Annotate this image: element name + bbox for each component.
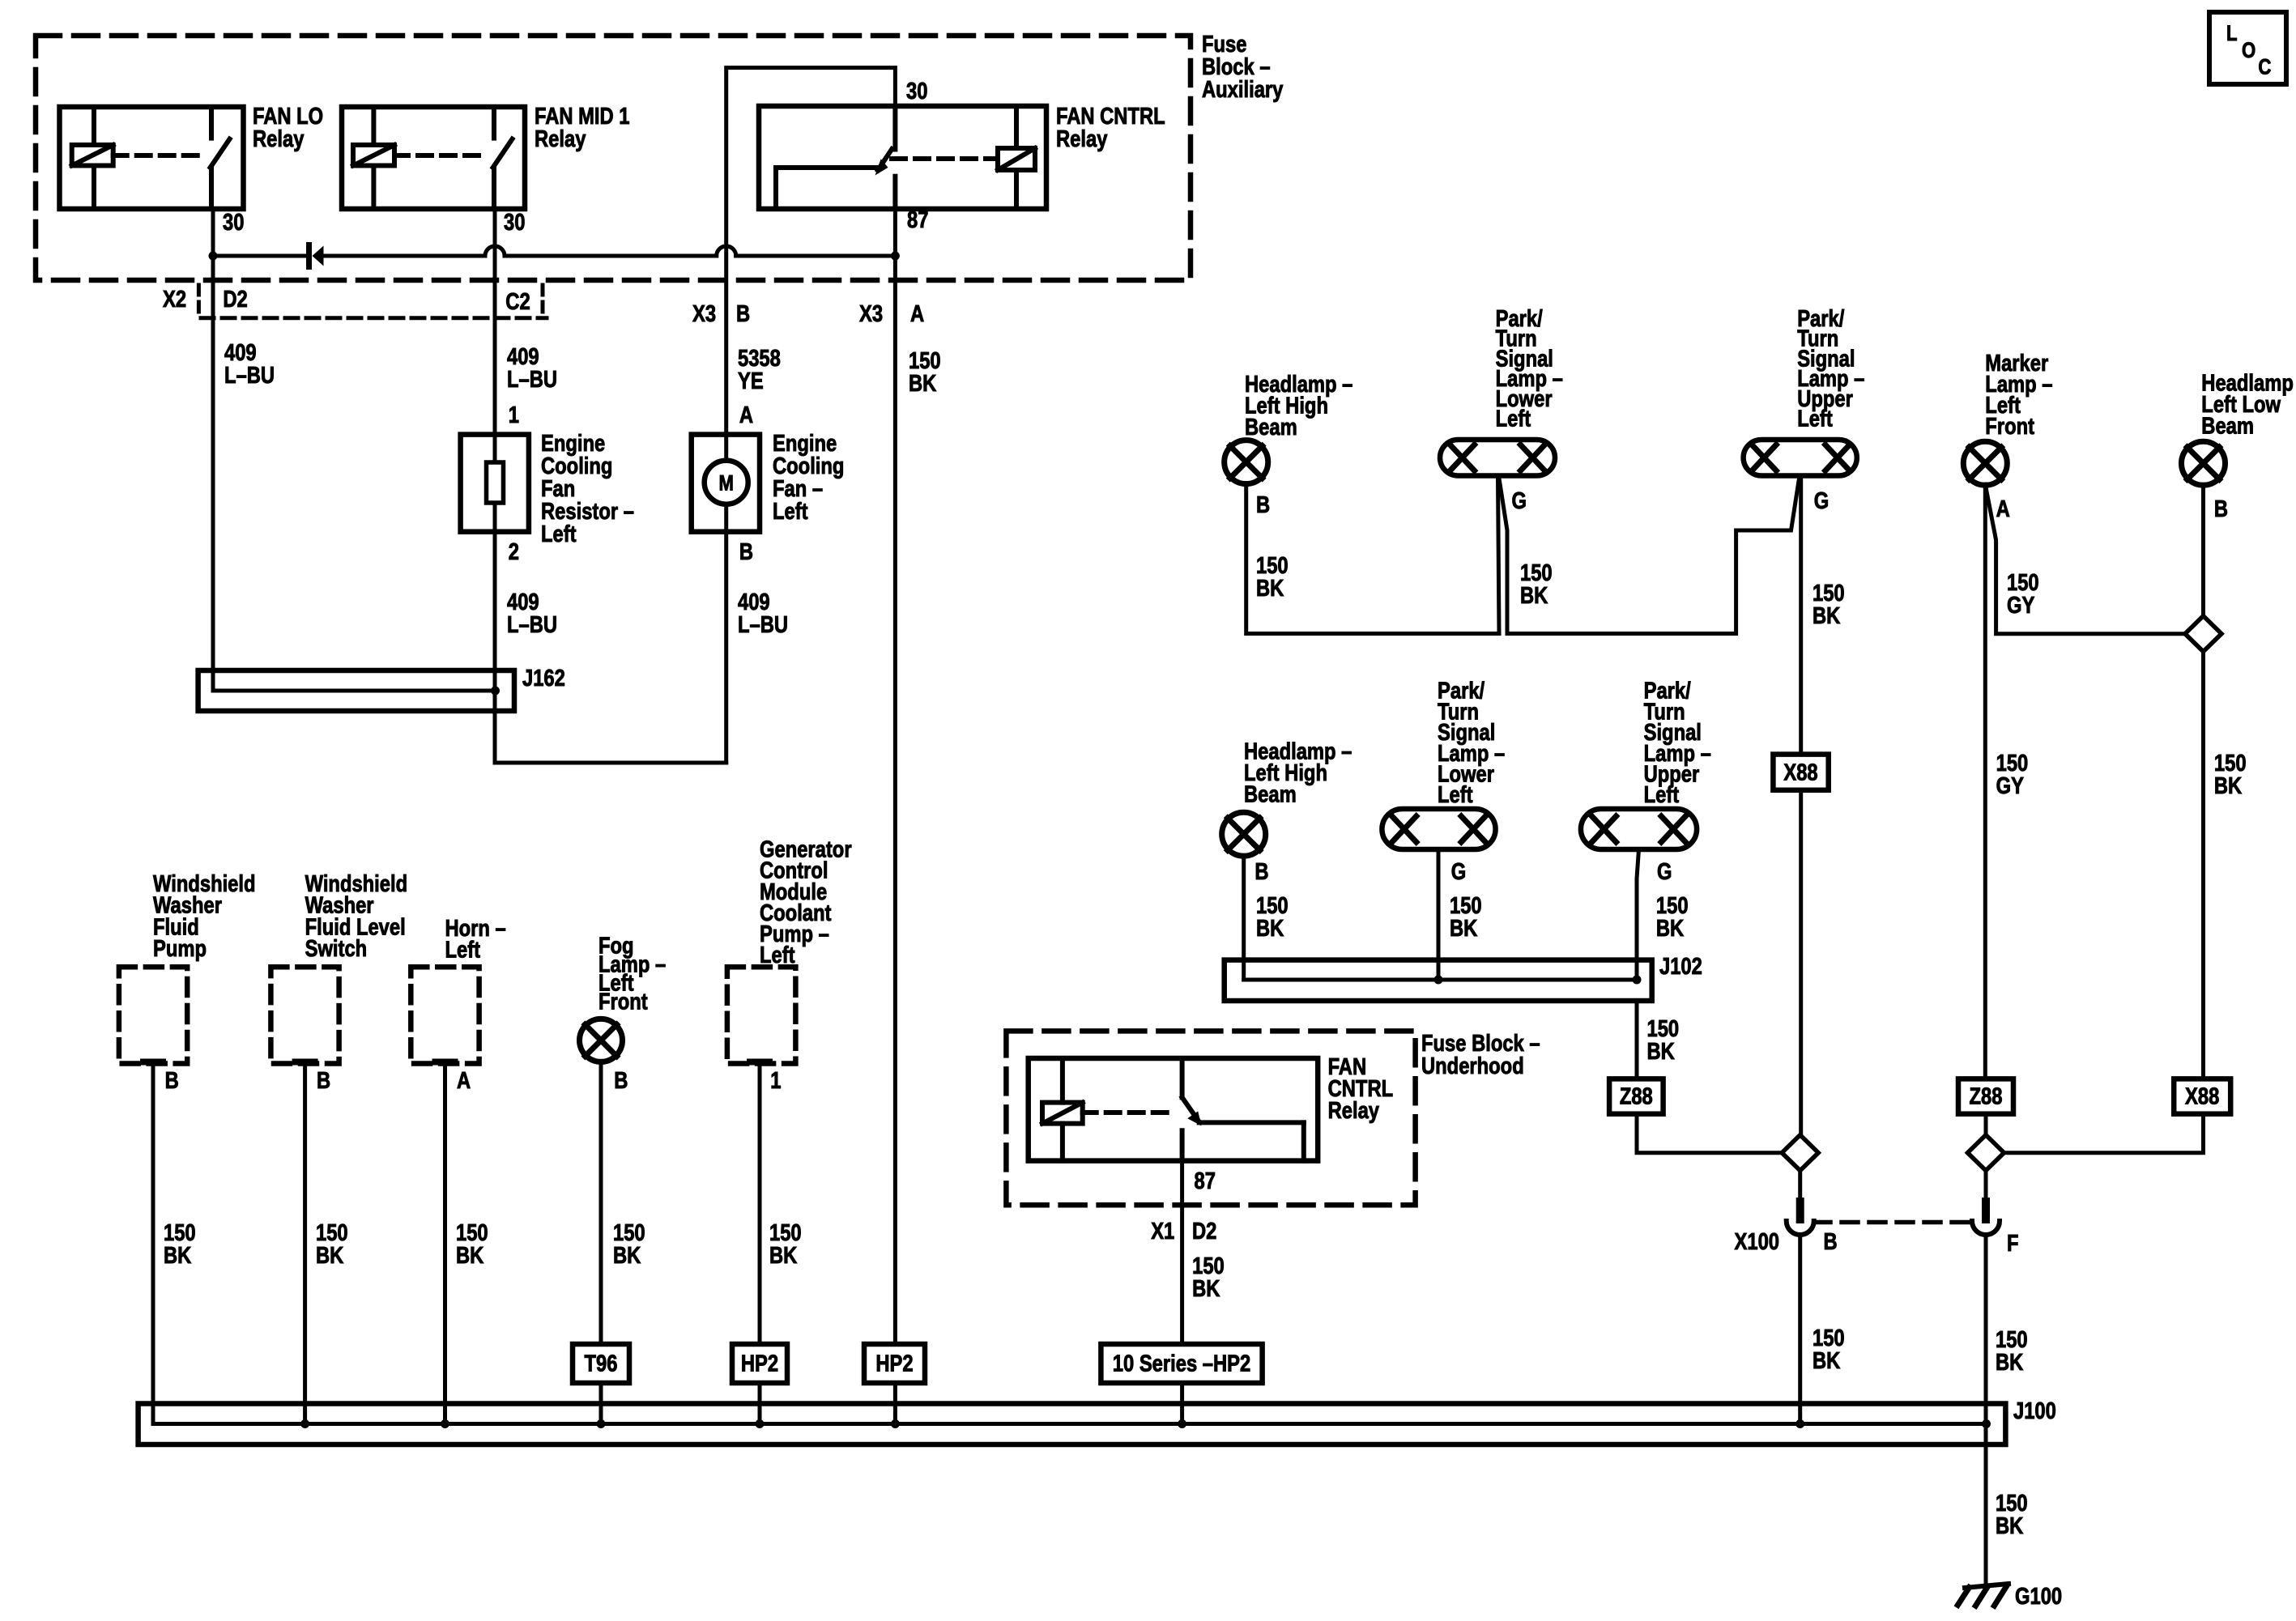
relay K1: FAN LO Relay: [60, 107, 244, 209]
wire: diamond D3 to X100 pin F: [1984, 1171, 1988, 1202]
wire: 150 BK park/turn lower row2 to J102: [1437, 849, 1441, 980]
lamp E8: Park/Turn Signal Lamp - Upper Left (row2): [1581, 809, 1697, 849]
pin B of washer fluid pump: [165, 1067, 179, 1094]
label: Engine Cooling Fan - Left: [773, 430, 844, 525]
resistor R1: Engine Cooling Fan Resistor - Left: [461, 435, 529, 532]
junction dot J102 at park/turn upper row2: [1633, 976, 1642, 985]
pin B of fog lamp: [614, 1067, 628, 1094]
svg-text:87: 87: [907, 206, 928, 233]
svg-text:A: A: [739, 402, 753, 428]
label: circuit 150 GY (marker lower): [1996, 750, 2029, 799]
svg-text:BK: BK: [1996, 1513, 2023, 1539]
label: Windshield Washer Fluid Level Switch: [305, 870, 408, 962]
label: Headlamp - Left High Beam (row1): [1245, 371, 1352, 440]
label: circuit 150 BK (headlamp low): [2214, 750, 2247, 799]
svg-text:B: B: [1256, 491, 1270, 518]
pin B of headlamp low beam: [2214, 496, 2228, 522]
svg-text:L–BU: L–BU: [507, 366, 557, 393]
svg-text:BK: BK: [164, 1242, 191, 1269]
pin F of X100: [2007, 1230, 2019, 1257]
label: connector X1: [1151, 1218, 1174, 1244]
label: Park/Turn Signal Lamp - Lower Left (row1): [1496, 305, 1563, 432]
wire: 150 GY marker lamp leg to headlamp-low diamond: [1985, 484, 2184, 634]
wire: Z88 left down and over to diamond D2: [1637, 1114, 1782, 1153]
pin B of headlamp row1: [1256, 491, 1270, 518]
connector Z88 (right): [1958, 1079, 2013, 1113]
svg-text:BK: BK: [2214, 772, 2242, 799]
label: circuit 150 BK (washer pump): [164, 1219, 196, 1269]
label: circuit 150 BK (park/turn upper row1): [1813, 580, 1845, 629]
label: Horn - Left: [445, 915, 506, 964]
svg-text:G: G: [1814, 487, 1829, 514]
pin D2 of X1: [1192, 1218, 1216, 1244]
connector X100 dashed link: [1814, 1220, 1971, 1225]
label 10 Series -HP2: [1113, 1350, 1250, 1376]
svg-text:BK: BK: [1813, 1347, 1840, 1374]
connector X2 strip (dashed): [201, 316, 547, 320]
pin 1 of coolant pump: [770, 1067, 781, 1094]
pin D2 of X2: [223, 286, 247, 313]
wire: X100 B down to J100: [1798, 1235, 1802, 1424]
svg-text:T96: T96: [585, 1350, 618, 1376]
label T96: [585, 1350, 618, 1376]
label: circuit 150 GY (marker upper): [2007, 569, 2039, 619]
svg-text:BK: BK: [316, 1242, 343, 1269]
label X88 (lower right): [2185, 1083, 2219, 1109]
svg-text:GY: GY: [2007, 592, 2035, 619]
svg-text:X2: X2: [163, 286, 186, 313]
label: J100: [2013, 1398, 2056, 1424]
svg-text:C: C: [2258, 56, 2271, 80]
label: circuit 150 BK (headlamp row2): [1256, 892, 1289, 942]
terminal pin into X100 B: [1796, 1202, 1804, 1219]
svg-text:1: 1: [509, 402, 519, 428]
pin B of headlamp row2: [1254, 858, 1268, 885]
svg-text:Pump: Pump: [153, 935, 207, 962]
svg-text:BK: BK: [769, 1242, 797, 1269]
wire: 150 BK fog lamp to J100: [599, 1061, 603, 1423]
wire: diamond D2 to X100 pin B: [1798, 1171, 1802, 1202]
wire: relay 30/87 interconnect bus (y=316): [213, 254, 307, 258]
junction dot J102 at park/turn lower row2: [1434, 976, 1443, 985]
junction dot J100 at FAN CNTRL 87: [891, 1419, 900, 1428]
label: circuit 150 BK (level switch): [316, 1219, 348, 1269]
svg-text:X3: X3: [859, 300, 883, 327]
connector T96: [573, 1344, 629, 1383]
svg-text:Left: Left: [1797, 405, 1833, 432]
svg-text:BK: BK: [1520, 582, 1548, 609]
wire: 409 L-BU from FAN LO pin 30 to splice J162: [211, 209, 215, 691]
wire: 150 BK headlamp row2 to J102: [1242, 855, 1246, 980]
svg-text:Left: Left: [445, 936, 481, 963]
svg-text:Beam: Beam: [2201, 412, 2254, 439]
pin B of fluid level switch: [317, 1067, 330, 1094]
wire: park/turn lower row1 pin G leg A: [1498, 476, 1500, 634]
svg-text:Underhood: Underhood: [1421, 1053, 1524, 1079]
diode CR1 (cathode left): [306, 242, 312, 270]
pin 87 of underhood FAN CNTRL relay: [1195, 1168, 1216, 1194]
label Z88 (left): [1620, 1083, 1653, 1109]
label: FAN MID 1 Relay: [535, 103, 630, 152]
svg-text:Beam: Beam: [1245, 414, 1297, 440]
relay K2: FAN MID 1 Relay: [342, 107, 525, 209]
svg-text:Left: Left: [760, 942, 795, 968]
lamp E7: Park/Turn Signal Lamp - Lower Left (row2): [1382, 809, 1495, 849]
svg-text:B: B: [1254, 858, 1268, 885]
svg-text:X88: X88: [1783, 759, 1817, 785]
pin B of X100: [1824, 1228, 1838, 1255]
component A1: Windshield Washer Fluid Pump (dashed): [119, 967, 187, 1063]
connector HP2 (left): [732, 1344, 787, 1383]
connector X88 (upper): [1773, 755, 1828, 790]
svg-text:BK: BK: [1996, 1349, 2023, 1376]
label: FAN CNTRL Relay (underhood): [1328, 1053, 1394, 1124]
label X88 (upper): [1783, 759, 1817, 785]
splice J102: [1225, 960, 1652, 1001]
diamond pass-through D1: [2185, 616, 2221, 652]
pin A of cooling fan motor: [739, 402, 753, 428]
svg-text:HP2: HP2: [875, 1350, 913, 1376]
LOC letters: [2226, 22, 2238, 46]
junction: FAN CNTRL pin87 / bus: [891, 252, 900, 261]
label: Headlamp - Left High Beam (row2): [1244, 738, 1352, 807]
label: J102: [1659, 953, 1702, 980]
label: Fuse Block - Auxiliary: [1202, 31, 1284, 103]
svg-text:YE: YE: [738, 368, 764, 394]
wire: 150 BK horn to J100: [443, 1062, 447, 1424]
pin G of park/turn lower row2: [1451, 858, 1466, 885]
svg-text:B: B: [614, 1067, 628, 1094]
label: Park/Turn Signal Lamp - Lower Left (row2): [1438, 677, 1505, 807]
wire: X88 lower right down and over to diamond D3: [2004, 1114, 2203, 1153]
svg-text:Left: Left: [1438, 781, 1473, 808]
svg-text:Left: Left: [1644, 781, 1680, 808]
pin C2 of X2: [505, 288, 530, 315]
label: connector X3 pin A: [859, 300, 883, 327]
lamp E5: Headlamp - Left Low Beam: [2182, 441, 2226, 485]
pin G of park/turn upper row2: [1657, 858, 1672, 885]
label: circuit 150 BK (park/turn lower row1): [1520, 559, 1553, 609]
svg-text:Relay: Relay: [1328, 1097, 1380, 1124]
label: circuit 5358 YE: [738, 345, 781, 394]
label: circuit 150 BK (X100 F): [1996, 1326, 2028, 1376]
svg-text:30: 30: [504, 209, 525, 236]
diamond pass-through D2: [1782, 1135, 1818, 1171]
fuse block F1: Fuse Block - Auxiliary (dashed outline): [36, 36, 1191, 280]
wire: park/turn lower row1 pin G leg B to elbow: [1499, 476, 1800, 634]
svg-text:L–BU: L–BU: [738, 611, 788, 638]
svg-text:J102: J102: [1659, 953, 1702, 980]
wire: 150 BK X100 F down to J100 and G100: [1984, 1235, 1988, 1585]
label: G100: [2015, 1583, 2062, 1610]
svg-text:L–BU: L–BU: [507, 611, 557, 638]
junction dot at J162: [491, 687, 500, 696]
pin A of horn: [457, 1067, 471, 1094]
svg-text:X88: X88: [2185, 1083, 2219, 1109]
svg-text:BK: BK: [1813, 602, 1840, 629]
pin 30 of FAN CNTRL relay: [906, 78, 927, 104]
pin A of marker lamp: [1996, 496, 2010, 522]
svg-text:G: G: [1512, 487, 1527, 514]
lamp E1: Headlamp - Left High Beam (row1): [1225, 440, 1268, 484]
pin G of park/turn upper row1: [1814, 487, 1829, 514]
svg-text:Left: Left: [773, 498, 808, 525]
splice J100 (ground bus): [138, 1404, 2006, 1445]
wire: 150 BK headlamp row1 to ground bus: [1246, 483, 1499, 634]
svg-text:1: 1: [770, 1067, 781, 1094]
wire: 150 BK underhood relay 87 down to J100: [1180, 1161, 1184, 1424]
label: circuit 150 BK (below J102): [1647, 1015, 1680, 1065]
svg-text:Front: Front: [1985, 413, 2034, 440]
relay K3: FAN CNTRL Relay (Fuse Block - Auxiliary): [759, 106, 1046, 209]
svg-text:2: 2: [509, 538, 519, 565]
junction dot J100 at X100 F / G100: [1982, 1419, 1991, 1428]
label HP2 (right): [875, 1350, 913, 1376]
wire: 409 L-BU resistor pin 2 to J162 and motor loop: [495, 532, 726, 763]
lamp E9: Fog Lamp - Left Front: [580, 1019, 623, 1062]
svg-text:M: M: [718, 472, 733, 496]
label: J162: [522, 665, 565, 691]
svg-text:B: B: [736, 300, 750, 327]
svg-text:BK: BK: [1656, 915, 1684, 942]
label: circuit 150 BK (headlamp row1): [1256, 552, 1289, 602]
svg-text:Front: Front: [598, 988, 648, 1015]
svg-text:Relay: Relay: [535, 126, 586, 152]
pin 30 of FAN LO relay: [223, 209, 244, 236]
label: circuit 150 BK (park/turn upper row2): [1656, 892, 1689, 942]
svg-text:X3: X3: [692, 300, 716, 327]
label: Engine Cooling Fan Resistor - Left: [541, 430, 634, 547]
wire: Z88 right down to diamond D3: [1984, 1114, 1988, 1135]
svg-text:87: 87: [1195, 1168, 1216, 1194]
fuse block F2: Fuse Block - Underhood (dashed outline): [1006, 1031, 1415, 1205]
label: Windshield Washer Fluid Pump: [153, 870, 256, 962]
wire: 150 GY marker lamp straight down to Z88: [1983, 484, 1987, 1079]
label: Marker Lamp - Left Front: [1985, 350, 2052, 440]
lamp E4: Marker Lamp - Left Front: [1963, 441, 2007, 485]
svg-text:C2: C2: [505, 288, 530, 315]
label: FAN LO Relay: [253, 103, 323, 152]
connector HP2 (right): [864, 1344, 925, 1383]
label: circuit 409 L-BU (below motor): [738, 589, 788, 638]
svg-text:BK: BK: [909, 370, 936, 397]
junction dot J100 at fog lamp: [597, 1419, 606, 1428]
wire: 150 BK from J102 down to Z88 (left): [1635, 1001, 1639, 1079]
pin 30 of FAN MID 1 relay: [504, 209, 525, 236]
component A3: Horn - Left (dashed): [411, 967, 479, 1063]
wire: 409 L-BU motor pin B down: [724, 532, 728, 763]
wire: 150 BK washer pump to J100: [151, 1062, 155, 1424]
label: Park/Turn Signal Lamp - Upper Left (row1): [1797, 305, 1864, 432]
pin B of cooling fan motor: [739, 538, 753, 565]
label: circuit 150 BK (underhood 87): [1192, 1253, 1225, 1302]
wire: 5358 YE feed from X3-B up to FAN CNTRL pin 30: [726, 68, 896, 435]
motor M1: Engine Cooling Fan - Left: [692, 435, 760, 532]
svg-text:Relay: Relay: [1056, 126, 1108, 152]
svg-text:BK: BK: [456, 1242, 483, 1269]
svg-text:L–BU: L–BU: [224, 362, 275, 389]
junction dot J100 at coolant pump: [756, 1419, 765, 1428]
svg-text:30: 30: [906, 78, 927, 104]
svg-text:BK: BK: [1450, 915, 1477, 942]
junction dot J100 at X100 B: [1795, 1419, 1804, 1428]
svg-text:X100: X100: [1735, 1228, 1779, 1255]
label: circuit 409 L-BU (center): [507, 343, 557, 393]
junction dot J100 at level switch: [300, 1419, 309, 1428]
svg-text:L: L: [2226, 22, 2238, 46]
wire: 150 BK coolant pump to J100: [758, 1062, 762, 1424]
label M inside motor: [718, 472, 733, 496]
svg-text:Switch: Switch: [305, 935, 368, 962]
splice J162: [198, 670, 514, 711]
connector X100 half B (cup): [1787, 1221, 1814, 1235]
lamp E6: Headlamp - Left High Beam (row2): [1222, 812, 1266, 856]
svg-text:B: B: [2214, 496, 2228, 522]
svg-text:Z88: Z88: [1970, 1083, 2003, 1109]
label: X100: [1735, 1228, 1779, 1255]
svg-text:A: A: [910, 300, 924, 327]
wire: 150 BK FAN CNTRL pin 87 down to J100: [893, 209, 897, 1424]
junction: FAN LO pin30 / bus: [209, 252, 218, 261]
svg-text:G: G: [1657, 858, 1672, 885]
svg-text:F: F: [2007, 1230, 2019, 1257]
lamp E3: Park/Turn Signal Lamp - Upper Left (row1): [1744, 440, 1857, 476]
connector X100 half F (cup): [1972, 1221, 2000, 1235]
svg-text:X1: X1: [1151, 1218, 1174, 1244]
connector 10 Series -HP2: [1101, 1344, 1262, 1383]
ground G100 symbol: [1965, 1584, 2008, 1588]
svg-text:HP2: HP2: [741, 1350, 778, 1376]
wire: 150 BK level switch to J100: [303, 1062, 307, 1424]
svg-text:A: A: [1996, 496, 2010, 522]
relay K4: FAN CNTRL Relay (Fuse Block - Underhood): [1029, 1058, 1318, 1161]
svg-text:Z88: Z88: [1620, 1083, 1653, 1109]
wire: headlamp low beam down to diamond D1: [2201, 484, 2205, 616]
svg-text:10 Series –HP2: 10 Series –HP2: [1113, 1350, 1250, 1376]
pin G of park/turn lower row1: [1512, 487, 1527, 514]
svg-text:Auxiliary: Auxiliary: [1202, 76, 1284, 103]
svg-text:GY: GY: [1996, 772, 2025, 799]
label: FAN CNTRL Relay: [1056, 103, 1165, 152]
component A2: Windshield Washer Fluid Level Switch (dashed): [270, 967, 339, 1063]
label: Park/Turn Signal Lamp - Upper Left (row2): [1644, 677, 1711, 807]
label: circuit 409 L-BU (left): [224, 339, 275, 389]
label: circuit 150 BK (park/turn lower row2): [1450, 892, 1482, 942]
label: Fuse Block - Underhood: [1421, 1030, 1540, 1079]
svg-text:B: B: [317, 1067, 330, 1094]
junction dot J100 at horn: [441, 1419, 449, 1428]
label: Headlamp - Left Low Beam: [2201, 369, 2296, 439]
label: Fog Lamp - Left Front: [598, 932, 666, 1015]
svg-text:BK: BK: [1256, 575, 1284, 602]
pin 2 of cooling fan resistor: [509, 538, 519, 565]
label: circuit 150 BK (fog lamp): [613, 1219, 645, 1269]
svg-text:30: 30: [223, 209, 244, 236]
svg-text:D2: D2: [1192, 1218, 1216, 1244]
svg-text:D2: D2: [223, 286, 247, 313]
label: Generator Control Module Coolant Pump - Left: [760, 836, 852, 968]
wire: 150 BK headlamp low beam to X88 (lower): [2201, 652, 2205, 1079]
label HP2 (left): [741, 1350, 778, 1376]
wire: 409 L-BU from FAN MID 1 pin 30 to resistor pin 1: [493, 209, 497, 435]
diamond pass-through D3: [1968, 1135, 2004, 1171]
label Z88 (right): [1970, 1083, 2003, 1109]
label: circuit 150 BK (horn): [456, 1219, 488, 1269]
svg-text:Relay: Relay: [253, 126, 305, 152]
lamp E2: Park/Turn Signal Lamp - Lower Left (row1): [1440, 440, 1555, 476]
svg-text:B: B: [739, 538, 753, 565]
label: circuit 150 BK (to G100): [1996, 1490, 2028, 1539]
junction dot J100 at underhood 87: [1178, 1419, 1186, 1428]
pin 87 of FAN CNTRL relay: [907, 206, 928, 233]
svg-text:Left: Left: [541, 521, 577, 547]
label: connector X2: [163, 286, 186, 313]
terminal pin into X100 F: [1982, 1202, 1990, 1219]
svg-text:Left: Left: [1496, 405, 1531, 432]
svg-text:G: G: [1451, 858, 1466, 885]
connector X88 (lower right): [2174, 1079, 2230, 1113]
connector Z88 (left): [1609, 1079, 1663, 1113]
legend box LOC: [2209, 12, 2286, 84]
label: circuit 150 BK (FAN CNTRL 87): [909, 347, 941, 397]
pin 1 of cooling fan resistor: [509, 402, 519, 428]
svg-text:BK: BK: [613, 1242, 641, 1269]
svg-text:BK: BK: [1647, 1038, 1675, 1065]
svg-text:B: B: [1824, 1228, 1838, 1255]
wire: 150 BK park/turn upper row1 down to X88: [1799, 476, 1803, 755]
component A4: Generator Control Module Coolant Pump - Left (dashed): [727, 967, 796, 1063]
label: circuit 150 BK (coolant pump): [769, 1219, 802, 1269]
svg-text:BK: BK: [1192, 1275, 1220, 1302]
svg-text:Beam: Beam: [1244, 781, 1297, 807]
wire: 150 BK X88 down to diamond: [1799, 790, 1803, 1135]
svg-text:J162: J162: [522, 665, 565, 691]
label: circuit 409 L-BU (below resistor): [507, 589, 557, 638]
wire: 150 BK park/turn upper row2 to J102: [1637, 849, 1639, 980]
svg-text:G100: G100: [2015, 1583, 2062, 1610]
svg-text:O: O: [2242, 39, 2256, 63]
svg-text:BK: BK: [1256, 915, 1284, 942]
svg-text:B: B: [165, 1067, 179, 1094]
label: circuit 150 BK (X100 B): [1813, 1325, 1845, 1374]
label: connector X3 pin B: [692, 300, 716, 327]
svg-text:J100: J100: [2013, 1398, 2056, 1424]
svg-text:A: A: [457, 1067, 471, 1094]
